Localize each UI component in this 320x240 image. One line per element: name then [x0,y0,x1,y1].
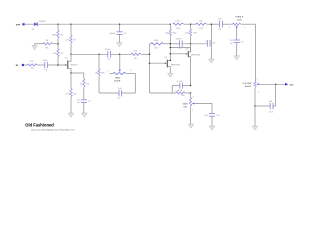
ground at gain pot [188,124,194,128]
trimpot BIAS wiper arrow [119,70,121,72]
pot VOLUME [242,79,260,94]
ground at C11 [209,126,215,130]
ground at Q2 source [168,73,174,77]
wire R5 to gate row [57,57,59,65]
svg-text:TREBLE: TREBLE [235,17,244,19]
wire VPP to D1 [25,23,34,25]
resistor R3 [80,79,90,88]
wire loop left side [171,86,173,94]
ground below C13 [209,59,215,63]
wire Q2 gate node vertical [149,44,151,93]
svg-text:5.1K: 5.1K [185,33,190,35]
svg-text:15nF: 15nF [43,60,48,62]
capacitor C11 [204,114,220,117]
wire Q3 drain vertical [190,44,192,52]
node Q1 drain junction [70,54,72,56]
ground at C3 [82,113,88,117]
svg-text:2.2K: 2.2K [65,93,70,95]
wire R9 to Q2 gate node [142,53,150,55]
svg-text:10K: 10K [165,33,169,35]
resistor R4 [52,24,64,38]
node Q3 source junctions [190,85,192,87]
node VPP [16,23,25,26]
wire C5 to ground [119,35,121,43]
resistor R5 [53,49,64,57]
resistor R13 [184,20,219,29]
svg-text:2N5457: 2N5457 [70,65,78,67]
capacitor C6 [176,38,183,50]
source RC loop: capacitor C10 [172,81,190,93]
wire R1 to C1 [38,64,45,66]
svg-text:4.7uF: 4.7uF [177,81,183,83]
diode D1 [32,21,47,31]
wire R2 to ground [70,97,72,113]
capacitor C3 [77,99,92,104]
svg-text:100K: 100K [237,20,242,22]
svg-text:150nF: 150nF [105,49,112,51]
svg-text:470nF: 470nF [176,38,183,40]
svg-text:500KB: 500KB [114,81,121,83]
node rail junction R4 [57,23,59,25]
node rail junction C13 [211,23,213,25]
pot TREBLE [229,17,256,29]
svg-text:A100K: A100K [245,85,252,88]
wire C6 to C13 [182,43,207,45]
capacitor C8 [218,19,222,32]
feedback row: resistor R10 [150,40,180,49]
svg-text:MPF4393: MPF4393 [171,64,181,66]
wire bias terminal3 down [122,74,136,94]
resistor R7 [65,24,77,54]
svg-text:2.2K: 2.2K [178,90,183,92]
svg-text:GAIN: GAIN [183,102,189,105]
wire gain wiper to C11 [194,104,212,114]
wire treble to volume [255,24,257,81]
capacitor C13 [205,40,216,47]
svg-text:100K: 100K [52,34,57,36]
svg-text:VPP: VPP [16,24,21,26]
wire Q3 gate [170,53,187,55]
node R8 tap [98,54,100,56]
capacitor C1 [43,60,48,72]
ground at C5 [117,43,123,47]
resistor R14 [185,24,198,44]
node Q2 drain bend [170,60,172,62]
node bias tap [119,54,121,56]
wire C3 to ground [83,103,85,113]
ground at R6 [32,44,38,50]
wire Q2 gate [150,62,167,64]
capacitor C9 [230,40,245,45]
resistor R6 [35,40,58,49]
node rail junction R14 [190,23,192,25]
svg-text:15K: 15K [199,20,203,22]
transistor Q1 [65,54,79,73]
svg-text:100nF: 100nF [109,33,116,35]
wire C4 to R9 [111,53,131,55]
title block [25,122,75,131]
svg-text:1M: 1M [95,72,98,74]
wire gain pot bottom [190,107,192,124]
wire Q2 drain to Q3 drain [170,47,190,49]
svg-text:1M: 1M [45,40,48,42]
ground at C9 [234,56,240,60]
resistor R11 [165,23,177,43]
wire bias wiper drop [119,54,121,70]
ground at R2 [68,113,74,117]
svg-text:50K: 50K [183,106,187,108]
node Q1 source junction [70,72,72,74]
resistor R12 [173,20,184,29]
capacitor C7 [118,88,123,100]
node rail junction R7 [70,23,72,25]
capacitor C5 [109,24,127,35]
node out junction [275,84,277,86]
node IN [16,64,24,67]
node R11 bottom junction [170,43,172,45]
svg-text:BIAS: BIAS [115,77,120,80]
transistor Q2 [164,44,180,73]
node rail junction C5 [119,23,121,25]
wire power rail [38,23,171,25]
pot GAIN [183,93,195,112]
capacitor C4 [105,49,112,61]
svg-text:Based on (Shredly) Animals Ped: Based on (Shredly) Animals Pedal Major O… [31,128,75,131]
node R14 bottom junction [190,43,192,45]
svg-text:VOLUME: VOLUME [242,83,251,85]
node Out [285,83,294,87]
capacitor C14 [255,101,276,114]
svg-text:MPF4393: MPF4393 [191,55,201,57]
wire treble wiper down [236,27,238,40]
svg-text:4.7K: 4.7K [65,39,70,41]
wire C1 to Q1 gate [48,64,67,66]
svg-text:47K: 47K [30,61,34,63]
svg-text:1.5K: 1.5K [175,20,180,22]
svg-text:10K: 10K [133,51,137,53]
wire R3 to C3 [83,88,85,100]
wire C7 to R8 bottom [99,92,119,94]
wire R4 to node [57,39,59,49]
svg-text:1N5817: 1N5817 [39,21,47,23]
svg-text:Old Fashioned: Old Fashioned [25,122,54,127]
trimpot BIAS [108,70,136,82]
wire C9 to ground [236,43,238,56]
ground at volume pot [252,126,258,130]
node gate junction [57,64,59,66]
wire Q1 drain row [71,53,108,55]
node C14 left junction [254,105,256,107]
resistor R8 [95,54,105,93]
svg-text:Out: Out [290,84,294,87]
wire IN to R1 [24,64,28,66]
wire C11 to ground [211,116,213,126]
wire C8 to treble pot [223,23,233,25]
node bias divider [57,43,59,45]
wire rail drop to ground [210,24,212,59]
resistor R1 [28,61,38,70]
resistor R9 [131,51,141,60]
wire Q1 source row [71,73,84,79]
wire volume wiper to Out [259,83,285,85]
wire volume bottom [254,88,256,126]
wire source to R2 [70,73,72,88]
resistor R15 [150,90,191,97]
svg-text:10K: 10K [53,53,57,55]
wire out junction down [275,84,277,106]
svg-text:100K: 100K [154,40,159,42]
resistor R2 [65,88,77,97]
transistor Q3 [186,48,201,86]
